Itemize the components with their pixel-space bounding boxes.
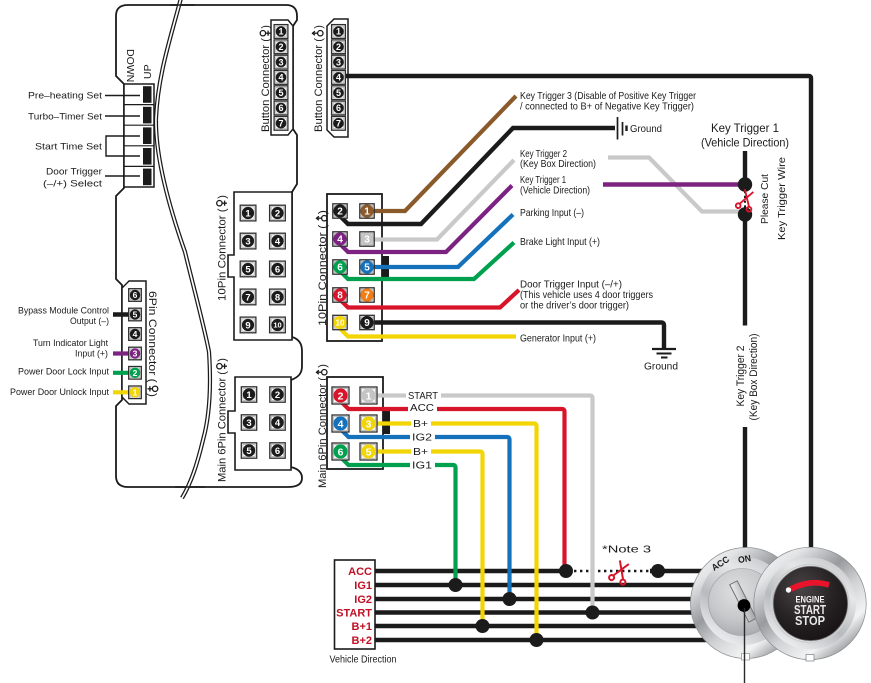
svg-text:ACC: ACC [348,566,372,578]
wire: B+ (yellow) pin3 [369,424,537,641]
wire: IG2 (blue) pin4 [341,424,510,599]
pin 5 6Pin Connector female side [129,308,142,321]
pin 10 10Pin Connector female [270,317,286,333]
svg-text:10Pin Connector ( ): 10Pin Connector ( ) [317,210,329,326]
scissors: please cut key trigger wire [735,188,756,212]
svg-text:Button Connector ( ): Button Connector ( ) [313,25,325,132]
svg-text:3: 3 [278,57,283,67]
svg-text:START: START [408,390,439,402]
svg-text:3: 3 [336,57,341,67]
label wire ACC [408,402,437,414]
svg-text:Key Trigger 1: Key Trigger 1 [711,121,779,135]
label wire B+ (pin3) [411,418,431,430]
pin 7 Button Connector female [274,116,288,130]
pin 6 Button Connector male [332,101,346,115]
pin 4 6Pin Connector female side [129,328,142,341]
ignition key cylinder [691,548,802,683]
svg-text:Parking Input (–): Parking Input (–) [520,207,584,219]
svg-text:4: 4 [275,236,281,247]
label wire START [406,390,441,402]
svg-text:UP: UP [142,64,154,79]
wire: B+ (yellow) pin5 [369,452,483,627]
wire: IG1 (green) pin6 [341,452,456,585]
wire: START (grey) pin1 [369,396,593,613]
DIP switch block [124,84,154,187]
pin 3 Main 6Pin Connector female [241,415,256,430]
label wire IG2 [410,432,435,444]
svg-text:Key Trigger 2: Key Trigger 2 [735,346,747,407]
connector key tab (10pin male) [382,256,390,279]
pin 6 Main 6Pin Connector male [332,443,349,460]
svg-text:8: 8 [337,291,343,302]
wire: key trigger vertical line (black) [743,151,747,185]
ground symbol (generator ground) [652,349,676,358]
svg-text:8: 8 [275,292,280,303]
junction: IG2 node [503,592,517,606]
svg-text:(Key Box Direction): (Key Box Direction) [520,158,596,170]
pin 1 6Pin Connector female side [129,386,142,399]
wire: generator ground (black) pin9 [367,323,664,350]
svg-text:5: 5 [366,446,372,458]
svg-text:4: 4 [338,418,344,430]
svg-text:ACC: ACC [410,402,434,414]
svg-text:3: 3 [133,349,138,359]
svg-text:IG1: IG1 [354,580,372,592]
pin 7 10Pin Connector male [360,288,374,302]
svg-text:6: 6 [337,263,343,274]
svg-text:Start Time Set: Start Time Set [35,142,102,153]
svg-text:4: 4 [278,73,283,83]
module bottom edge over curve [175,486,205,488]
pin 6 10Pin Connector male [333,260,347,274]
wire: key trigger 2 (grey) pin3 [367,160,514,240]
svg-text:4: 4 [133,329,138,339]
svg-text:B+1: B+1 [352,621,373,633]
svg-text:3: 3 [246,418,251,429]
svg-text:Please Cut: Please Cut [759,174,771,224]
connector: Main 6Pin Connector (male) [327,377,383,469]
wire: ACC line [375,569,566,573]
svg-text:Ground: Ground [644,361,678,373]
wire: ACC (red) pin2 [341,396,565,571]
svg-text:3: 3 [364,235,370,246]
svg-text:DOWN: DOWN [124,49,136,82]
svg-text:5: 5 [364,263,370,274]
female symbol (main 6pin connector) [217,364,227,369]
module top edge over curve [170,4,195,6]
svg-text:B+2: B+2 [352,635,373,647]
svg-text:4: 4 [336,73,341,83]
svg-text:3: 3 [366,418,372,430]
pin 2 Button Connector female [274,40,288,54]
wire: IG2 line [375,597,712,601]
junction: START node [586,606,600,620]
pin 4 10Pin Connector male [333,232,347,246]
engine start stop button [754,547,866,661]
pin 2 10Pin Connector female [270,205,286,221]
svg-text:/ connected to B+ of Negative: / connected to B+ of Negative Key Trigge… [520,100,694,112]
male symbol (button connector) [313,31,324,36]
pin 9 10Pin Connector female [240,317,256,333]
wire: key trigger 3 (brown) pin1 [367,96,516,211]
junction: B+2 node [530,633,544,647]
svg-text:B+: B+ [413,446,428,458]
svg-text:6: 6 [275,264,280,275]
pin 3 Button Connector female [274,55,288,69]
svg-text:4: 4 [337,235,343,246]
svg-text:Vehicle Direction: Vehicle Direction [330,654,397,666]
pin 8 10Pin Connector male [333,288,347,302]
svg-text:1: 1 [366,390,372,402]
svg-text:IG2: IG2 [412,432,432,444]
pin 2 Button Connector male [332,40,346,54]
svg-text:(Vehicle Direction): (Vehicle Direction) [520,185,590,197]
female symbol (6pin side connector) [148,386,158,391]
junction: key trigger 1 node [738,177,752,191]
pin 7 Button Connector male [332,116,346,130]
male symbol (main 6pin connector) [317,370,328,375]
wire: ground wire (black) pin2 [340,128,615,224]
connector: 10Pin Connector (male) [327,194,382,341]
pin 6 Button Connector female [274,101,288,115]
svg-text:Generator Input (+): Generator Input (+) [520,332,596,344]
pin 2 Main 6Pin Connector male [332,387,349,404]
junction: B+1 node [476,619,490,633]
pin 5 Main 6Pin Connector male [360,443,377,460]
connector key tab (main 6pin male) [383,411,391,434]
pin 5 10Pin Connector male [360,260,374,274]
wire: brake light input (green) pin6 [340,243,514,280]
svg-text:(Key Box Direction): (Key Box Direction) [748,334,760,421]
svg-text:2: 2 [133,368,138,378]
svg-text:2: 2 [338,390,344,402]
pin 1 10Pin Connector male [360,204,374,218]
junction: ACC node 2 [651,564,665,578]
svg-text:2: 2 [278,42,283,52]
pin 1 Button Connector male [332,25,346,39]
ground symbol (key trigger ground) [618,117,627,140]
svg-text:Input (+): Input (+) [75,348,108,359]
pin 5 Button Connector female [274,86,288,100]
wire: B+1 line [375,624,712,628]
pin 2 6Pin Connector female side [129,367,142,380]
svg-text:7: 7 [364,291,370,302]
pin 6 10Pin Connector female [270,261,286,277]
svg-text:*Note 3: *Note 3 [602,544,651,556]
pin 1 Button Connector female [274,25,288,39]
svg-text:Main 6Pin Connector ( ): Main 6Pin Connector ( ) [217,358,229,482]
svg-text:2: 2 [336,42,341,52]
svg-text:2: 2 [275,390,280,401]
connector: Button Connector (male) [327,19,348,137]
svg-text:5: 5 [278,88,283,98]
wire: key trigger 2 grey to junction [608,158,740,212]
svg-text:10: 10 [273,321,281,330]
junction: IG1 node [449,578,463,592]
pin 9 10Pin Connector male [360,315,374,329]
svg-text:B+: B+ [413,418,428,430]
svg-text:1: 1 [246,390,252,401]
svg-text:10Pin Connector ( ): 10Pin Connector ( ) [217,195,229,301]
junction: key trigger 2 node [738,207,752,221]
pin 1 10Pin Connector female [240,205,256,221]
svg-text:(Vehicle Direction): (Vehicle Direction) [701,136,789,150]
svg-text:5: 5 [245,264,251,275]
pin 3 10Pin Connector female [240,233,256,249]
male symbol (10pin connector) [317,216,328,221]
wire: power door lock input (green) [113,371,135,375]
svg-text:1: 1 [278,27,283,37]
svg-text:5: 5 [336,88,341,98]
svg-text:START: START [336,608,372,620]
pin 6 Main 6Pin Connector female [270,443,285,458]
wire: B+2 line [375,638,712,642]
svg-text:1: 1 [245,208,251,219]
scissors: note 3 cut [608,559,632,585]
pin 4 Button Connector female [274,71,288,85]
svg-text:Ground: Ground [630,123,662,135]
pin 8 10Pin Connector female [270,289,286,305]
svg-text:5: 5 [246,446,252,457]
svg-text:7: 7 [245,292,250,303]
wire: parking input (blue) pin5 [367,215,513,268]
svg-text:6: 6 [275,446,280,457]
junction: ACC node 1 [559,564,573,578]
svg-text:Turn Indicator Light: Turn Indicator Light [33,338,108,349]
svg-text:1: 1 [364,207,370,218]
svg-text:Turbo–Timer Set: Turbo–Timer Set [28,112,102,123]
ignition switch terminal box [335,560,376,649]
connector: 6Pin Connector (female, side) [122,281,146,404]
svg-text:9: 9 [364,318,370,329]
svg-text:Brake Light Input (+): Brake Light Input (+) [520,236,600,248]
pin 3 Button Connector male [332,55,346,69]
svg-text:6: 6 [278,103,283,113]
pin 3 10Pin Connector male [360,232,374,246]
pin 1 Main 6Pin Connector female [241,387,256,402]
svg-text:6: 6 [338,446,344,458]
svg-text:7: 7 [278,119,283,129]
svg-text:3: 3 [245,236,250,247]
pin 5 Button Connector male [332,86,346,100]
svg-text:STOP: STOP [795,614,825,628]
svg-text:6: 6 [336,103,341,113]
wire: key trigger 1 purple to junction [603,182,741,186]
wire: door trigger input (red) pin8 [340,290,519,308]
pin 4 Button Connector male [332,71,346,85]
female symbol (10pin connector) [217,201,227,206]
label wire IG1 [410,460,435,472]
svg-text:Output (–): Output (–) [70,316,109,327]
svg-text:6Pin Connector ( ): 6Pin Connector ( ) [146,291,158,397]
pin 3 6Pin Connector female side [129,347,142,360]
wire: turn indicator light input (purple) [113,351,135,355]
svg-text:10: 10 [336,318,345,327]
svg-text:9: 9 [245,320,250,331]
wire: button connector pin 4 to engine start button (black) [345,76,811,549]
svg-text:6: 6 [133,290,138,300]
main control module [116,5,302,487]
pin 2 Main 6Pin Connector female [270,387,285,402]
wire: generator input (yellow) pin10 [340,323,516,337]
label wire B+ (pin5) [411,446,431,458]
pin 10 10Pin Connector male [333,315,347,329]
svg-text:(–/+) Select: (–/+) Select [43,179,102,190]
svg-text:1: 1 [336,27,341,37]
svg-text:IG2: IG2 [354,594,372,606]
svg-text:Button Connector ( ): Button Connector ( ) [260,25,272,132]
svg-text:5: 5 [133,310,138,320]
svg-text:Key Trigger Wire: Key Trigger Wire [776,157,788,240]
connector: 10Pin Connector (female) [228,192,292,340]
svg-text:Main 6Pin Connector ( ): Main 6Pin Connector ( ) [317,364,329,488]
wire: START line [375,610,712,614]
svg-text:Door Trigger: Door Trigger [46,167,102,178]
svg-text:2: 2 [337,207,343,218]
wire: IG1 line [375,583,712,587]
svg-text:IG1: IG1 [412,460,432,472]
pin 3 Main 6Pin Connector male [360,415,377,432]
svg-text:2: 2 [275,208,280,219]
svg-text:4: 4 [275,418,281,429]
svg-text:or the driver’s door trigger): or the driver’s door trigger) [520,299,629,311]
pin 5 Main 6Pin Connector female [241,443,256,458]
wire: key trigger 1 (purple) pin4 [340,186,512,253]
connector: Main 6Pin Connector (female) [228,377,291,470]
svg-text:Power Door Lock Input: Power Door Lock Input [18,366,109,377]
wire: bypass module control output (black) [113,312,135,316]
pin 4 Main 6Pin Connector male [332,415,349,432]
pin 6 6Pin Connector female side [129,289,142,302]
female symbol (button connector) [260,31,270,36]
wire: power door unlock input (yellow) [113,390,135,394]
pin 1 Main 6Pin Connector male [360,387,377,404]
pin 7 10Pin Connector female [240,289,256,305]
pin 2 10Pin Connector male [333,204,347,218]
svg-text:Pre–heating Set: Pre–heating Set [28,91,102,102]
pin 4 Main 6Pin Connector female [270,415,285,430]
svg-text:1: 1 [133,387,138,397]
svg-text:Power Door Unlock Input: Power Door Unlock Input [10,387,109,398]
svg-text:7: 7 [336,119,341,129]
svg-text:Bypass Module Control: Bypass Module Control [18,305,109,316]
pin 4 10Pin Connector female [270,233,286,249]
connector: Button Connector (female) tab [271,20,293,135]
pin 5 10Pin Connector female [240,261,256,277]
module case curve [156,0,210,498]
